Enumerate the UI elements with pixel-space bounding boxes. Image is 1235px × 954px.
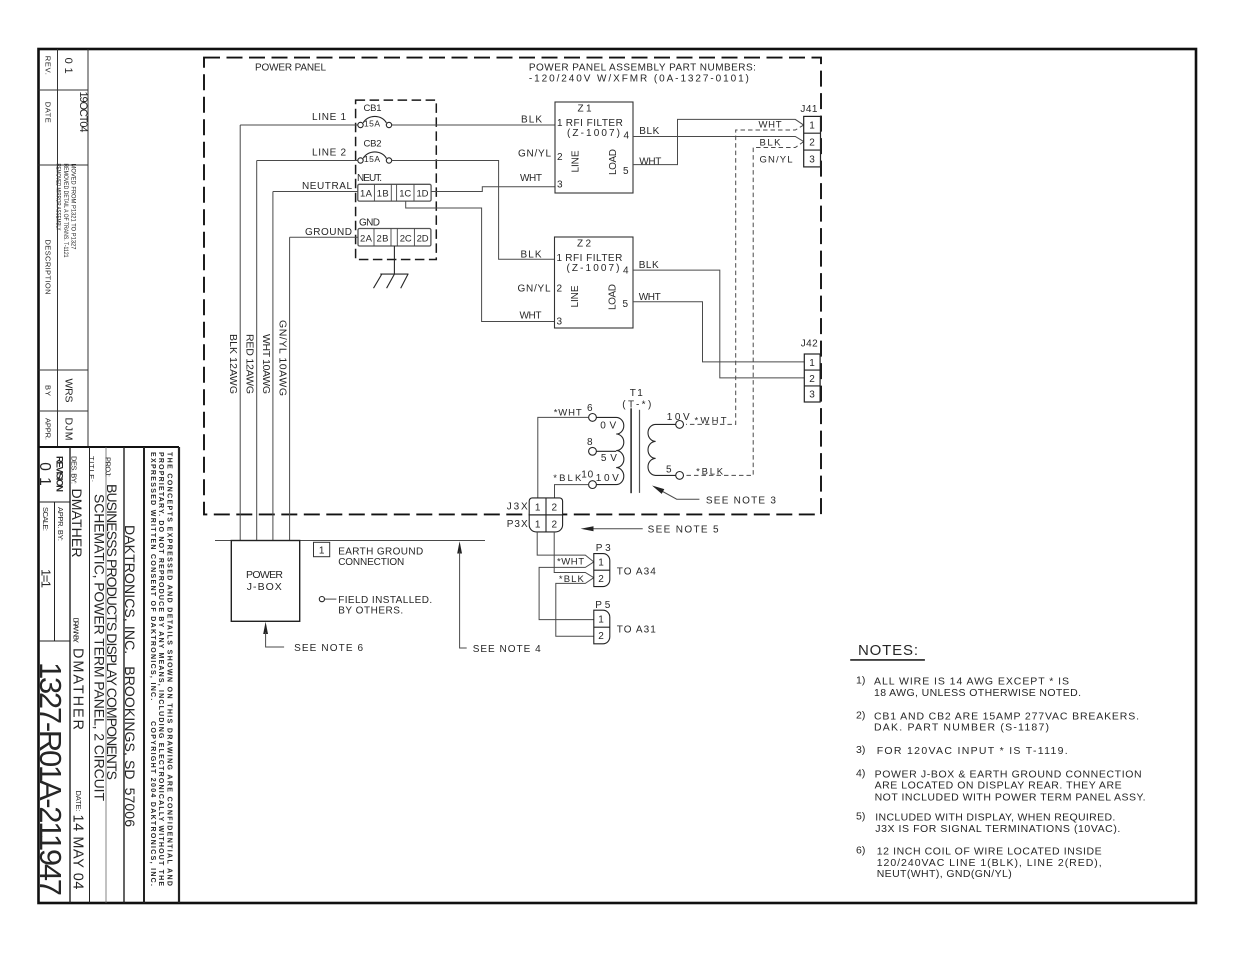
svg-text:1A: 1A xyxy=(360,189,373,200)
svg-text:1: 1 xyxy=(557,253,563,264)
svg-text:5): 5) xyxy=(856,811,865,823)
svg-text:SEE NOTE 6: SEE NOTE 6 xyxy=(294,643,363,654)
svg-text:DJM: DJM xyxy=(63,418,75,441)
svg-text:3: 3 xyxy=(557,180,563,191)
svg-text:WHT 10AWG: WHT 10AWG xyxy=(260,334,272,394)
svg-text:BLK 12AWG: BLK 12AWG xyxy=(227,334,239,394)
svg-text:4): 4) xyxy=(856,768,865,780)
svg-text:CB1: CB1 xyxy=(364,103,382,114)
svg-text:12 INCH COIL OF WIRE LOCATED I: 12 INCH COIL OF WIRE LOCATED INSIDE xyxy=(877,846,1102,858)
svg-text:1=1: 1=1 xyxy=(38,569,53,588)
svg-text:1: 1 xyxy=(598,615,604,626)
svg-text:1D: 1D xyxy=(417,189,429,200)
svg-text:2): 2) xyxy=(856,709,865,721)
svg-text:EARTH GROUND: EARTH GROUND xyxy=(338,546,423,557)
svg-text:NEUT(WHT), GND(GN/YL): NEUT(WHT), GND(GN/YL) xyxy=(877,868,1012,880)
svg-text:RED 12AWG: RED 12AWG xyxy=(244,334,256,394)
svg-text:2: 2 xyxy=(598,631,604,642)
svg-text:POWER PANEL ASSEMBLY PART NUMB: POWER PANEL ASSEMBLY PART NUMBERS: xyxy=(529,62,756,73)
svg-text:REV.: REV. xyxy=(43,56,52,75)
svg-text:(Z-1007): (Z-1007) xyxy=(567,263,620,274)
svg-text:BLK: BLK xyxy=(639,260,659,271)
svg-text:J-BOX: J-BOX xyxy=(247,581,282,593)
svg-text:DES. BY:: DES. BY: xyxy=(70,456,79,484)
svg-text:BLK: BLK xyxy=(521,115,542,126)
svg-text:TO A31: TO A31 xyxy=(617,625,656,636)
svg-text:BLK: BLK xyxy=(639,126,659,137)
svg-text:2: 2 xyxy=(552,520,558,531)
svg-text:NEUT.: NEUT. xyxy=(357,173,382,184)
svg-text:1: 1 xyxy=(598,558,604,569)
svg-text:5: 5 xyxy=(666,464,672,475)
svg-text:WHT: WHT xyxy=(520,173,542,184)
svg-text:5: 5 xyxy=(623,166,629,177)
svg-text:BLK: BLK xyxy=(760,137,782,148)
svg-text:1: 1 xyxy=(557,118,563,129)
svg-text:2: 2 xyxy=(552,503,558,514)
svg-text:GND: GND xyxy=(359,217,380,228)
svg-text:FOR 120VAC INPUT * IS T-1119.: FOR 120VAC INPUT * IS T-1119. xyxy=(877,745,1068,757)
svg-text:APPR.: APPR. xyxy=(43,418,52,440)
svg-text:15A: 15A xyxy=(364,154,380,164)
svg-text:LOAD: LOAD xyxy=(608,284,619,310)
svg-text:2: 2 xyxy=(809,138,815,149)
svg-text:APPR. BY:: APPR. BY: xyxy=(56,507,65,541)
svg-text:REMOVED MIRROR ASSEMBLY: REMOVED MIRROR ASSEMBLY xyxy=(55,164,62,231)
svg-text:*WHT: *WHT xyxy=(557,557,584,568)
svg-text:FIELD INSTALLED.: FIELD INSTALLED. xyxy=(338,595,432,606)
svg-text:LINE: LINE xyxy=(570,285,581,307)
svg-text:2: 2 xyxy=(809,374,815,385)
svg-text:LOAD: LOAD xyxy=(608,149,619,175)
svg-text:GN/YL 10AWG: GN/YL 10AWG xyxy=(277,320,289,396)
svg-text:SEE NOTE 4: SEE NOTE 4 xyxy=(473,644,541,655)
svg-text:PROJ:: PROJ: xyxy=(104,457,113,477)
svg-text:LINE: LINE xyxy=(571,150,582,172)
svg-text:2D: 2D xyxy=(417,233,429,244)
svg-text:GN/YL: GN/YL xyxy=(518,149,551,160)
svg-text:1327-R01A-211947: 1327-R01A-211947 xyxy=(33,662,68,896)
svg-text:(Z-1007): (Z-1007) xyxy=(567,128,620,139)
svg-text:NOTES:: NOTES: xyxy=(858,642,918,659)
svg-text:8: 8 xyxy=(587,437,593,448)
svg-text:ARE LOCATED ON DISPLAY REAR. T: ARE LOCATED ON DISPLAY REAR. THEY ARE xyxy=(875,780,1122,792)
svg-text:4: 4 xyxy=(623,266,629,277)
svg-text:NEUTRAL: NEUTRAL xyxy=(302,181,352,192)
svg-text:14 MAY 04: 14 MAY 04 xyxy=(70,815,86,890)
svg-text:DATE: DATE xyxy=(43,102,52,123)
svg-text:4: 4 xyxy=(624,131,630,142)
svg-text:1: 1 xyxy=(809,121,815,132)
svg-text:DRAWN BY:: DRAWN BY: xyxy=(72,617,81,642)
svg-text:REMOVED DETAIL A OF TRANS. T-1: REMOVED DETAIL A OF TRANS. T-1121 xyxy=(62,164,69,258)
svg-text:*BLK: *BLK xyxy=(559,574,585,585)
svg-text:3: 3 xyxy=(809,390,815,401)
svg-text:POWER PANEL: POWER PANEL xyxy=(255,63,326,74)
svg-text:2A: 2A xyxy=(360,233,373,244)
svg-text:DESCRIPTION: DESCRIPTION xyxy=(43,240,52,295)
svg-text:2: 2 xyxy=(557,284,563,295)
svg-text:CB2: CB2 xyxy=(364,139,382,150)
svg-text:2: 2 xyxy=(598,574,604,585)
svg-text:NOT INCLUDED WITH POWER TERM P: NOT INCLUDED WITH POWER TERM PANEL ASSY. xyxy=(875,791,1146,803)
svg-text:MOVED FROM P1321 TO P1327: MOVED FROM P1321 TO P1327 xyxy=(69,164,76,250)
svg-text:3: 3 xyxy=(557,317,563,328)
svg-text:DMATHER: DMATHER xyxy=(69,489,85,558)
svg-text:1: 1 xyxy=(535,520,541,531)
svg-text:3): 3) xyxy=(856,744,865,756)
svg-text:DAKTRONICS, INC. BROOKINGS,: DAKTRONICS, INC. BROOKINGS, SD 57006 xyxy=(122,525,138,827)
svg-text:J42: J42 xyxy=(801,339,818,350)
svg-text:1): 1) xyxy=(856,675,865,687)
svg-text:19OCT04: 19OCT04 xyxy=(77,92,89,133)
svg-text:P3X: P3X xyxy=(507,519,528,530)
svg-text:PROPRIETARY. DO NOT REPRODUCE: PROPRIETARY. DO NOT REPRODUCE BY ANY MEA… xyxy=(157,452,164,886)
svg-text:SEE NOTE 3: SEE NOTE 3 xyxy=(706,495,776,506)
svg-text:*WHT: *WHT xyxy=(554,407,582,418)
svg-text:BUSINESSS PRODUCTS DISPLAY COM: BUSINESSS PRODUCTS DISPLAY COMPONENTS xyxy=(104,484,120,780)
svg-text:SCALE:: SCALE: xyxy=(41,507,50,531)
svg-text:CB1 AND CB2 ARE 15AMP 277VAC B: CB1 AND CB2 ARE 15AMP 277VAC BREAKERS. xyxy=(874,710,1139,722)
svg-text:18 AWG, UNLESS OTHERWISE NOTED: 18 AWG, UNLESS OTHERWISE NOTED. xyxy=(874,687,1081,699)
svg-text:1: 1 xyxy=(535,503,541,514)
svg-text:1: 1 xyxy=(319,545,325,556)
svg-text:CONNECTION: CONNECTION xyxy=(338,557,404,568)
svg-text:GROUND: GROUND xyxy=(305,227,352,238)
svg-text:POWER J-BOX & EARTH GROUND CON: POWER J-BOX & EARTH GROUND CONNECTION xyxy=(875,768,1142,780)
svg-text:J3X: J3X xyxy=(507,501,528,512)
svg-text:WHT: WHT xyxy=(520,311,542,322)
svg-text:REVISION: REVISION xyxy=(54,456,65,492)
svg-text:BY OTHERS.: BY OTHERS. xyxy=(338,606,403,617)
svg-text:ALL WIRE IS 14 AWG EXCEPT * IS: ALL WIRE IS 14 AWG EXCEPT * IS xyxy=(874,676,1069,688)
svg-text:T1: T1 xyxy=(630,388,643,399)
svg-text:LINE 1: LINE 1 xyxy=(312,112,346,123)
svg-text:1B: 1B xyxy=(377,189,389,200)
svg-text:J41: J41 xyxy=(800,104,817,115)
svg-text:BLK: BLK xyxy=(521,250,542,261)
svg-text:TITLE:: TITLE: xyxy=(87,456,96,482)
svg-text:1C: 1C xyxy=(399,189,411,200)
svg-text:10: 10 xyxy=(581,469,593,480)
svg-text:10V: 10V xyxy=(596,473,619,484)
svg-text:3: 3 xyxy=(809,154,815,165)
svg-text:10V: 10V xyxy=(667,412,690,423)
svg-text:2B: 2B xyxy=(377,233,389,244)
svg-text:WHT: WHT xyxy=(639,157,661,168)
svg-text:2: 2 xyxy=(557,152,563,163)
svg-text:WHT: WHT xyxy=(759,120,782,131)
svg-text:GN/YL: GN/YL xyxy=(518,284,551,295)
svg-text:POWER: POWER xyxy=(246,569,283,581)
svg-text:6: 6 xyxy=(587,403,593,414)
svg-text:INCLUDED WITH DISPLAY, WHEN RE: INCLUDED WITH DISPLAY, WHEN REQUIRED. xyxy=(875,812,1115,824)
svg-text:DATE:: DATE: xyxy=(74,791,83,812)
svg-text:LINE 2: LINE 2 xyxy=(312,147,346,158)
svg-text:6): 6) xyxy=(856,845,865,857)
svg-text:5: 5 xyxy=(623,299,629,310)
svg-text:GN/YL: GN/YL xyxy=(760,155,793,166)
svg-text:1: 1 xyxy=(809,358,815,369)
svg-text:15A: 15A xyxy=(364,119,380,129)
svg-text:J3X IS FOR SIGNAL TERMINATIONS: J3X IS FOR SIGNAL TERMINATIONS (10VAC). xyxy=(875,823,1120,835)
svg-text:BY: BY xyxy=(43,385,52,396)
svg-text:EXPRESSED WRITTEN CONSENT OF D: EXPRESSED WRITTEN CONSENT OF DAKTRONICS,… xyxy=(149,452,156,886)
svg-text:DAK. PART NUMBER (S-1187): DAK. PART NUMBER (S-1187) xyxy=(874,722,1049,734)
svg-text:WRS: WRS xyxy=(63,379,75,403)
svg-text:2C: 2C xyxy=(400,233,412,244)
svg-text:TO A34: TO A34 xyxy=(617,567,656,578)
